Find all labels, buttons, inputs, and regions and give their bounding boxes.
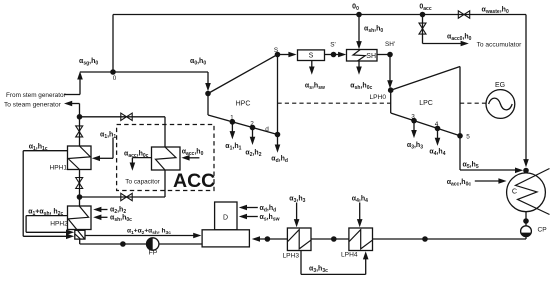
svg-text:0: 0 [113, 75, 117, 82]
svg-text:From stem generator: From stem generator [6, 92, 67, 99]
svg-text:HPC: HPC [236, 100, 251, 107]
svg-text:d: d [265, 126, 269, 133]
svg-text:ACC: ACC [173, 170, 215, 192]
svg-text:S: S [309, 53, 314, 60]
svg-text:2: 2 [250, 120, 254, 127]
svg-text:S': S' [330, 42, 335, 49]
svg-text:EG: EG [495, 82, 505, 89]
svg-text:HPH2: HPH2 [50, 221, 68, 228]
svg-text:FP: FP [149, 249, 158, 256]
svg-text:To capacitor: To capacitor [125, 179, 160, 186]
svg-text:SH': SH' [385, 41, 395, 48]
svg-text:To accumulator: To accumulator [477, 42, 523, 49]
svg-text:D: D [223, 215, 228, 222]
svg-text:LPH0: LPH0 [370, 94, 387, 101]
svg-text:SH: SH [366, 53, 376, 60]
svg-text:4: 4 [435, 121, 439, 128]
svg-text:LPH4: LPH4 [341, 252, 358, 259]
svg-text:5: 5 [466, 134, 470, 141]
svg-text:1: 1 [230, 115, 234, 122]
svg-text:C: C [512, 187, 517, 196]
svg-text:HPH1: HPH1 [50, 164, 68, 171]
svg-text:3: 3 [411, 114, 415, 121]
svg-text:S: S [274, 47, 278, 54]
svg-text:LPH3: LPH3 [283, 252, 300, 259]
svg-text:CP: CP [538, 227, 548, 234]
svg-text:To steam generator: To steam generator [4, 101, 62, 108]
svg-text:LPC: LPC [419, 100, 433, 107]
